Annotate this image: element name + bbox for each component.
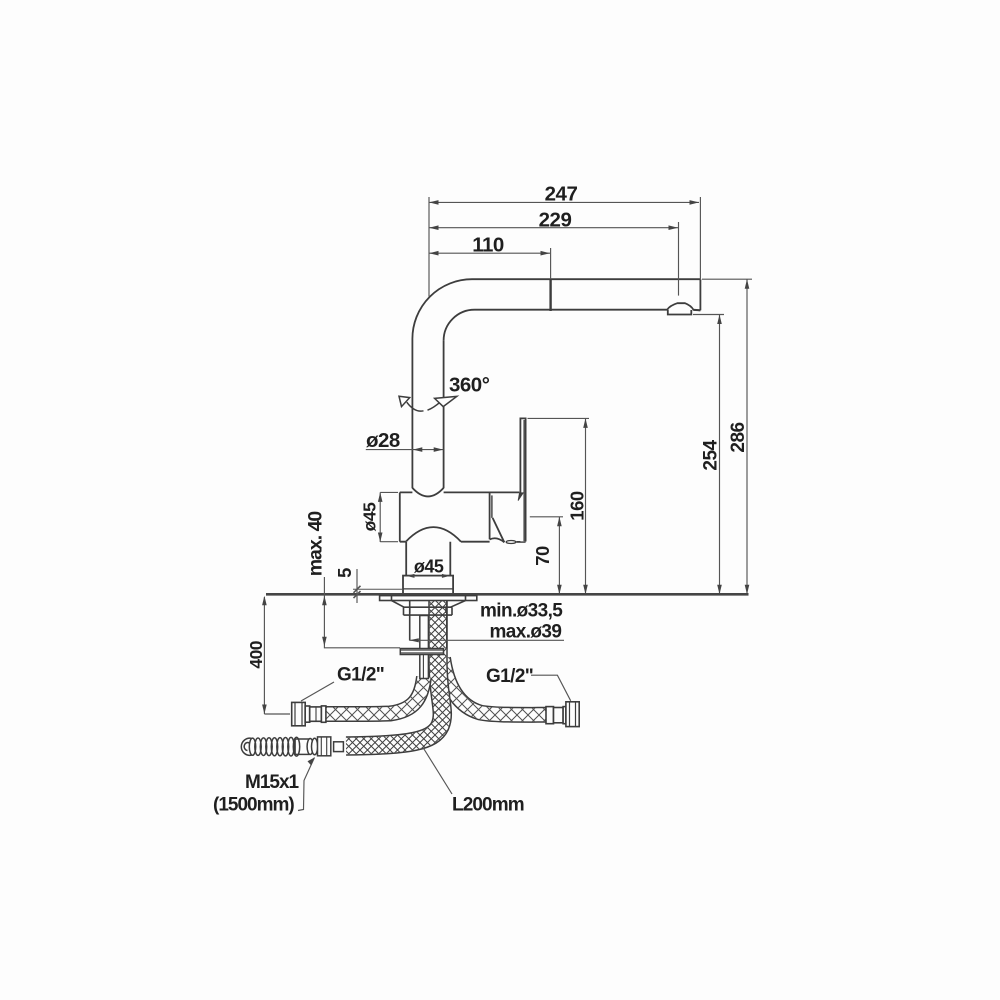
svg-text:max.ø39: max.ø39	[490, 622, 562, 643]
mixer body	[400, 488, 526, 544]
dim line 110	[429, 252, 550, 254]
svg-text:70: 70	[532, 546, 553, 566]
svg-text:360°: 360°	[449, 374, 490, 397]
dim line 247	[429, 201, 699, 203]
extension from aerator bottom	[693, 314, 724, 316]
dim line 286	[746, 279, 748, 594]
base collar on deck	[403, 576, 453, 595]
svg-text:min.ø33,5: min.ø33,5	[480, 601, 563, 622]
leader for M15x1	[298, 758, 315, 811]
central pull-out hose (braided)	[346, 598, 442, 746]
svg-text:ø45: ø45	[360, 502, 380, 531]
swivel arc left half	[399, 396, 424, 411]
M15 pull-out hose end: connector	[295, 737, 343, 756]
svg-text:ø28: ø28	[366, 429, 400, 452]
spout bent tube	[412, 279, 700, 488]
svg-text:G1/2": G1/2"	[486, 666, 533, 687]
extension spout top right	[702, 278, 752, 280]
left G1/2 fitting	[292, 702, 326, 725]
handle lever	[518, 418, 526, 541]
svg-text:229: 229	[539, 209, 572, 232]
svg-text:254: 254	[701, 439, 722, 470]
svg-text:400: 400	[246, 640, 266, 668]
base neck	[406, 542, 450, 576]
dim line 229	[429, 227, 678, 229]
right supply hose (braided)	[443, 658, 547, 715]
supply tube through bracket	[420, 616, 429, 679]
left supply hose (braided)	[326, 677, 424, 714]
dim line 254	[719, 315, 721, 595]
svg-text:L200mm: L200mm	[452, 795, 524, 816]
swivel arc right half	[428, 396, 457, 410]
leader for L200mm	[423, 748, 452, 795]
cone under washer	[392, 601, 466, 608]
body right edge and cartridge	[489, 492, 491, 539]
extension line left (spout bend)	[428, 197, 430, 297]
shank vertical lines	[410, 595, 447, 649]
arrowheads top dims	[429, 200, 699, 255]
fillet tube/body	[412, 488, 443, 497]
right G1/2 fitting	[546, 702, 579, 727]
svg-text:286: 286	[728, 422, 749, 452]
extension line 247 right / spout end	[699, 197, 701, 279]
max dia39 leader	[409, 639, 564, 641]
svg-text:ø45: ø45	[414, 557, 444, 577]
svg-text:247: 247	[545, 183, 578, 206]
mounting nut	[404, 607, 453, 615]
svg-text:max. 40: max. 40	[305, 511, 327, 577]
svg-text:(1500mm): (1500mm)	[213, 795, 294, 816]
svg-text:G1/2": G1/2"	[337, 665, 384, 686]
mounting washer bar	[380, 596, 477, 601]
joint line on spout	[549, 279, 551, 311]
svg-text:5: 5	[334, 568, 355, 578]
spiral spring end	[241, 737, 299, 756]
svg-text:160: 160	[567, 491, 588, 521]
extension line 110 right	[550, 248, 552, 279]
svg-text:M15x1: M15x1	[245, 772, 300, 793]
horseshoe bracket	[400, 649, 443, 655]
aerator nozzle	[667, 303, 700, 314]
svg-text:110: 110	[472, 234, 504, 257]
saddle dome at body bottom	[406, 527, 461, 542]
extension line 229 right	[678, 222, 680, 296]
